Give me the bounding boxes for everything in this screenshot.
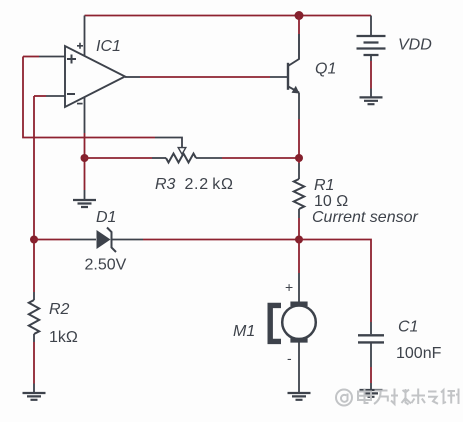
op-amp U1 triangle xyxy=(65,46,125,107)
wire node to D1 anode xyxy=(34,239,70,241)
wire node to motor + xyxy=(298,240,300,274)
wire node to C1 branch xyxy=(299,240,371,323)
pin ground stub op-amp xyxy=(84,190,86,200)
node junction emitter / R3 / R1 xyxy=(295,154,303,162)
pin R1 bottom xyxy=(298,209,300,218)
wire collector from rail xyxy=(298,16,300,35)
resistor R2 zigzag xyxy=(29,300,39,334)
wire op-amp V+ pin xyxy=(84,16,86,57)
motor M1 body circle xyxy=(282,306,316,340)
pin ground stub R2 xyxy=(33,384,35,393)
svg-text:VDD: VDD xyxy=(398,37,432,54)
node junction top rail collector xyxy=(295,11,304,20)
svg-text:Q1: Q1 xyxy=(315,61,336,78)
svg-text:D1: D1 xyxy=(96,209,116,226)
wire op-amp output to Q1 base xyxy=(140,76,270,78)
pin Q1 collector xyxy=(288,34,299,66)
diode D1 zener cathode bar xyxy=(107,228,116,253)
pin C1 top xyxy=(370,322,372,334)
op-amp plus input symbol xyxy=(67,55,76,64)
wire emitter to node xyxy=(298,119,300,158)
svg-text:R2: R2 xyxy=(49,301,70,318)
pin R2 bottom xyxy=(33,334,35,342)
wire R1 bottom to node xyxy=(298,218,300,240)
wiper arrowhead xyxy=(178,148,186,155)
pin op-amp V- xyxy=(84,97,86,133)
node junction motor / C1 xyxy=(295,236,303,244)
wire op-amp V- to ground xyxy=(84,133,86,190)
pin ground stub battery xyxy=(370,89,372,98)
emitter arrowhead xyxy=(292,86,300,94)
battery VDD top pin xyxy=(370,16,372,37)
wire R3 left xyxy=(85,157,153,159)
wire battery to ground xyxy=(370,61,372,89)
node junction R3 left / ground xyxy=(81,154,89,162)
pin D1 cathode xyxy=(112,239,143,241)
svg-text:2.50V: 2.50V xyxy=(85,257,127,274)
ground motor xyxy=(288,393,311,400)
resistor R1 zigzag xyxy=(294,179,304,209)
watermark xyxy=(336,389,459,406)
pin motor bottom to ground xyxy=(298,341,300,393)
svg-text:Current sensor: Current sensor xyxy=(312,209,418,226)
svg-text:1kΩ: 1kΩ xyxy=(49,329,78,346)
pin R1 top xyxy=(298,163,300,179)
wire non-inverting input xyxy=(23,56,39,58)
svg-text:+: + xyxy=(285,279,293,295)
pin Q1 base xyxy=(270,76,287,78)
wire top rail VDD xyxy=(85,15,372,17)
pin non-inverting input xyxy=(39,56,65,58)
pin D1 anode xyxy=(70,239,96,241)
wire R3 right to emitter node xyxy=(222,157,299,159)
motor M1 bottom brush cap xyxy=(290,338,307,343)
transistor Q1 base bar xyxy=(287,63,289,90)
wire R2 to ground xyxy=(33,342,35,384)
motor M1 top brush cap xyxy=(290,301,307,306)
svg-text:-: - xyxy=(287,350,292,366)
resistor R3 zigzag xyxy=(166,154,196,163)
motor M1 bracket xyxy=(270,305,281,341)
pin C1 bottom xyxy=(370,344,372,368)
wire node to R1 xyxy=(298,158,300,163)
op-amp small plus at power pin xyxy=(77,43,83,49)
pin R3 left xyxy=(152,157,166,159)
svg-text:C1: C1 xyxy=(398,319,418,336)
ground op-amp xyxy=(73,200,96,207)
wire C1 to ground xyxy=(370,367,372,383)
pin op-amp output xyxy=(125,76,140,78)
svg-text:M1: M1 xyxy=(233,323,255,340)
wire feedback from wiper to + input xyxy=(23,57,155,138)
pin R3 right xyxy=(196,157,222,159)
wire inverting input to reference node xyxy=(33,96,35,240)
pin Q1 emitter xyxy=(288,86,299,92)
op-amp small minus at bottom pin xyxy=(77,103,83,105)
svg-text:R1: R1 xyxy=(314,177,334,194)
pin Q1 emitter vertical xyxy=(298,93,300,120)
pin inverting input xyxy=(46,95,65,97)
ground R2 xyxy=(23,393,46,400)
svg-text:100nF: 100nF xyxy=(396,345,442,362)
diode D1 zener triangle xyxy=(97,230,111,249)
svg-text:10 Ω: 10 Ω xyxy=(314,193,348,210)
svg-text:R32.2kΩ: R32.2kΩ xyxy=(155,176,234,193)
pin R2 top xyxy=(33,292,35,300)
capacitor C1 plates xyxy=(358,335,384,342)
pin ground stub C1 xyxy=(370,383,372,390)
battery VDD plates xyxy=(357,36,386,55)
pin motor top xyxy=(298,273,300,304)
pin R3 wiper xyxy=(155,138,182,150)
ground battery xyxy=(360,97,383,104)
wire D1 to sense node xyxy=(143,239,299,241)
wire inverting input xyxy=(34,95,46,97)
ground C1 xyxy=(360,390,383,397)
battery VDD bottom pin xyxy=(370,55,372,61)
node junction reference (D1/R2/inverting input) xyxy=(30,236,38,244)
svg-text:IC1: IC1 xyxy=(96,38,121,55)
wire R2 top xyxy=(33,240,35,293)
op-amp minus input symbol xyxy=(67,93,75,95)
